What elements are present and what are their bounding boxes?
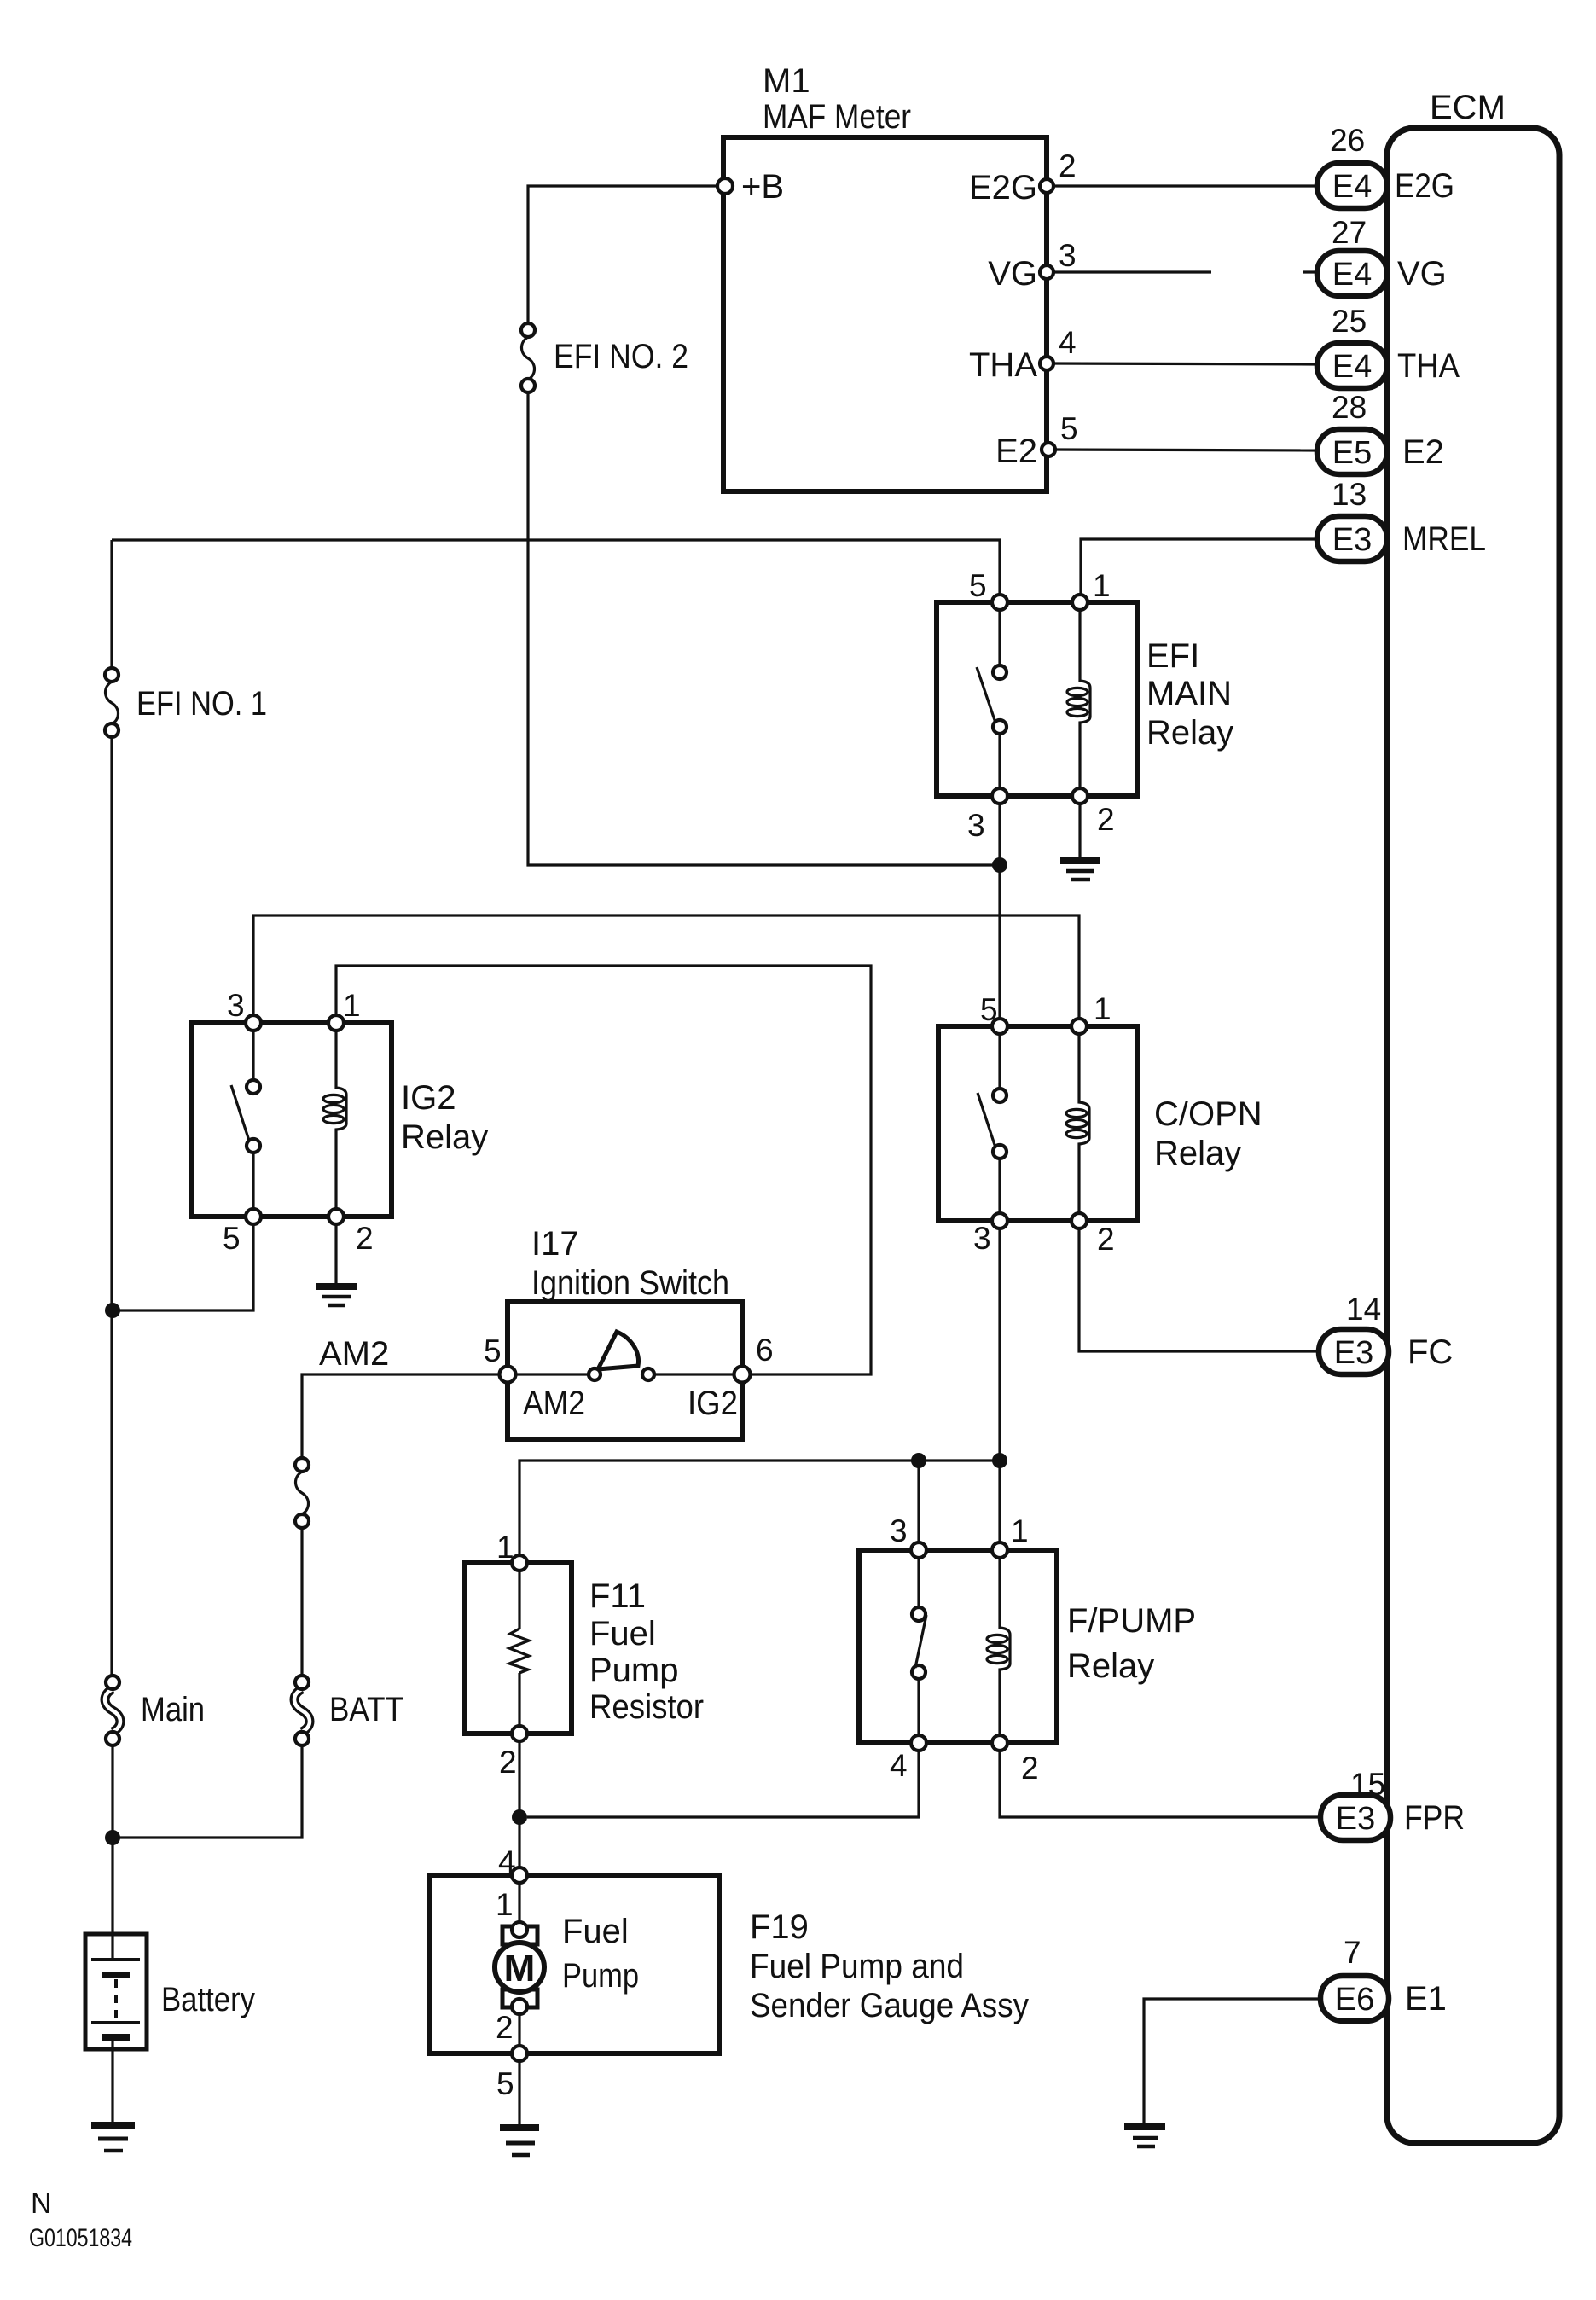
svg-text:Battery: Battery bbox=[161, 1981, 255, 2018]
svg-text:3: 3 bbox=[227, 988, 245, 1023]
wire IG2 pin5 feed from battery line bbox=[113, 1225, 253, 1310]
svg-text:2: 2 bbox=[499, 1745, 517, 1780]
fuse EFI NO. 2 bbox=[521, 323, 688, 392]
wire F11 pin2 down to F19 pin 4 bbox=[518, 1741, 520, 1867]
motor fuel pump bbox=[495, 1867, 544, 2061]
connector E4 pin 25 THA bbox=[1317, 304, 1460, 388]
svg-text:5: 5 bbox=[1060, 411, 1078, 446]
connector E3 pin 14 FC bbox=[1319, 1292, 1453, 1374]
svg-text:2: 2 bbox=[1097, 802, 1115, 837]
svg-text:25: 25 bbox=[1332, 304, 1367, 339]
wire fuse EFI NO.2 to junction below EFI MAIN relay bbox=[528, 392, 993, 865]
relay IG2 bbox=[191, 988, 488, 1256]
svg-text:Ignition Switch: Ignition Switch bbox=[531, 1264, 729, 1302]
svg-text:Main: Main bbox=[141, 1691, 205, 1728]
connector E5 pin 28 E2 bbox=[1317, 390, 1444, 474]
pin E2G (2) of MAF meter bbox=[969, 148, 1077, 206]
connector E6 pin 7 E1 bbox=[1320, 1935, 1447, 2021]
fuse Main bbox=[105, 1676, 205, 1745]
svg-text:Fuel: Fuel bbox=[562, 1913, 629, 1950]
svg-text:EFI NO. 2: EFI NO. 2 bbox=[554, 338, 688, 375]
wire E2G to ECM bbox=[1053, 184, 1317, 187]
svg-text:FC: FC bbox=[1407, 1333, 1453, 1371]
ground below EFI MAIN relay bbox=[1060, 861, 1100, 880]
wire VG (with scan gap) bbox=[1053, 270, 1211, 273]
wire junction to F/PUMP pin 4 bbox=[527, 1751, 919, 1817]
svg-text:C/OPN: C/OPN bbox=[1154, 1095, 1262, 1133]
svg-text:E2: E2 bbox=[1402, 433, 1444, 471]
svg-text:5: 5 bbox=[496, 2066, 514, 2101]
wire BATT fuse to junction bbox=[113, 1745, 302, 1838]
wire EFI MAIN pin2 to ground bbox=[1078, 804, 1081, 859]
svg-text:7: 7 bbox=[1344, 1935, 1361, 1970]
svg-text:Relay: Relay bbox=[401, 1118, 488, 1156]
svg-text:4: 4 bbox=[890, 1748, 908, 1783]
svg-text:2: 2 bbox=[1097, 1222, 1115, 1257]
ECM module box bbox=[1387, 89, 1559, 2143]
node junction FPR sense tap bbox=[512, 1809, 527, 1825]
svg-text:E1: E1 bbox=[1405, 1980, 1447, 2018]
svg-text:27: 27 bbox=[1332, 215, 1367, 250]
svg-text:Sender Gauge Assy: Sender Gauge Assy bbox=[750, 1987, 1029, 2024]
wire C/OPN pin1 from IG2 relay pin 3 bbox=[253, 915, 1079, 1018]
resistor F11 fuel pump resistor bbox=[465, 1530, 704, 1780]
svg-text:M: M bbox=[504, 1948, 536, 1989]
svg-text:26: 26 bbox=[1330, 123, 1365, 158]
svg-text:2: 2 bbox=[496, 2010, 514, 2045]
svg-text:1: 1 bbox=[343, 988, 361, 1023]
ground below IG2 relay bbox=[316, 1286, 357, 1305]
node junction F/PUMP pin1 feed bbox=[992, 1453, 1007, 1468]
pin VG (3) of MAF meter bbox=[988, 238, 1076, 293]
ground below battery bbox=[91, 2125, 135, 2151]
svg-text:BATT: BATT bbox=[329, 1691, 403, 1728]
svg-text:5: 5 bbox=[969, 568, 987, 603]
node junction battery trunk / BATT branch bbox=[105, 1830, 120, 1845]
svg-text:1: 1 bbox=[1093, 568, 1111, 603]
svg-text:5: 5 bbox=[484, 1333, 502, 1368]
svg-text:E4: E4 bbox=[1332, 169, 1372, 205]
node junction F/PUMP pin3 feed bbox=[911, 1453, 926, 1468]
svg-text:F11: F11 bbox=[589, 1577, 646, 1615]
wire C/OPN pin3 down to distribution node bbox=[998, 1229, 1001, 1461]
node junction at EFI MAIN relay output bbox=[992, 857, 1007, 873]
connector E4 pin 26 E2G bbox=[1317, 123, 1454, 208]
relay C/OPN bbox=[938, 991, 1262, 1257]
pin +B of MAF meter bbox=[717, 168, 784, 206]
svg-text:2: 2 bbox=[1059, 148, 1077, 183]
svg-text:VG: VG bbox=[988, 255, 1037, 293]
wire down to F/PUMP pin 3 bbox=[917, 1461, 920, 1542]
svg-text:N: N bbox=[31, 2187, 52, 2220]
wire down to F/PUMP pin 1 bbox=[998, 1461, 1001, 1542]
svg-text:4: 4 bbox=[1059, 325, 1077, 360]
svg-text:6: 6 bbox=[756, 1333, 774, 1368]
svg-text:5: 5 bbox=[223, 1221, 241, 1256]
pin THA (4) of MAF meter bbox=[969, 325, 1077, 384]
wire IG2 pin2 to ground bbox=[334, 1225, 337, 1283]
svg-text:G01051834: G01051834 bbox=[29, 2224, 132, 2252]
svg-text:THA: THA bbox=[969, 346, 1037, 384]
fuse EFI NO. 1 bbox=[105, 668, 267, 737]
svg-text:1: 1 bbox=[1011, 1513, 1029, 1548]
svg-text:3: 3 bbox=[890, 1513, 908, 1548]
connector E3 pin 15 FPR bbox=[1320, 1767, 1465, 1840]
svg-text:THA: THA bbox=[1397, 347, 1460, 385]
svg-text:3: 3 bbox=[973, 1221, 991, 1256]
ground below fuel pump bbox=[500, 2128, 539, 2155]
svg-text:1: 1 bbox=[496, 1887, 514, 1922]
svg-text:E5: E5 bbox=[1332, 435, 1372, 471]
svg-text:IG2: IG2 bbox=[401, 1079, 456, 1117]
svg-text:Relay: Relay bbox=[1146, 714, 1233, 752]
svg-text:EFI: EFI bbox=[1146, 637, 1199, 675]
wire F/PUMP pin2 to FPR connector bbox=[1000, 1751, 1320, 1817]
svg-text:3: 3 bbox=[967, 808, 985, 843]
wire F19 pin5 to ground bbox=[518, 2062, 520, 2124]
fuel pump assembly F19 box bbox=[430, 1844, 1029, 2101]
svg-text:MREL: MREL bbox=[1402, 520, 1486, 558]
node junction battery line / IG2 feed bbox=[105, 1303, 120, 1318]
wire MREL coil-side: EFI MAIN pin 1 to MREL connector bbox=[1081, 539, 1319, 594]
svg-text:E2G: E2G bbox=[969, 169, 1037, 206]
svg-text:Pump: Pump bbox=[589, 1652, 679, 1689]
ignition switch I17 bbox=[484, 1225, 774, 1439]
wire battery to ground bbox=[111, 2049, 113, 2122]
svg-text:E2: E2 bbox=[995, 433, 1037, 470]
svg-text:F19: F19 bbox=[750, 1908, 809, 1946]
ground E1 bbox=[1124, 2127, 1165, 2146]
svg-text:E4: E4 bbox=[1332, 257, 1372, 293]
svg-text:13: 13 bbox=[1332, 477, 1367, 512]
svg-text:Relay: Relay bbox=[1067, 1647, 1154, 1685]
svg-text:ECM: ECM bbox=[1430, 89, 1506, 126]
svg-text:MAIN: MAIN bbox=[1146, 675, 1232, 712]
svg-text:E2G: E2G bbox=[1395, 167, 1454, 205]
relay EFI MAIN bbox=[937, 568, 1233, 843]
wire MREL battery-side: EFI NO.1 top to EFI MAIN pin 5 bbox=[112, 540, 1000, 594]
battery bbox=[85, 1934, 255, 2049]
connector E3 pin 13 MREL bbox=[1317, 477, 1486, 561]
wire EFI NO.1 vertical battery feed bbox=[110, 540, 113, 668]
wire IG2 pin1 from ignition switch IG2 bbox=[336, 966, 871, 1374]
svg-text:E4: E4 bbox=[1332, 349, 1372, 385]
svg-text:2: 2 bbox=[356, 1221, 374, 1256]
wire fuse to BATT fuse bbox=[300, 1528, 303, 1676]
svg-text:Fuel Pump and: Fuel Pump and bbox=[750, 1948, 964, 1985]
wire AM2 from ignition switch to fuse line bbox=[302, 1374, 498, 1458]
svg-text:3: 3 bbox=[1059, 238, 1077, 273]
svg-text:MAF Meter: MAF Meter bbox=[763, 98, 911, 136]
svg-text:AM2: AM2 bbox=[319, 1335, 389, 1373]
svg-text:E3: E3 bbox=[1336, 1801, 1375, 1837]
svg-text:FPR: FPR bbox=[1404, 1799, 1465, 1837]
wire +B feed from EFI NO.2 fuse bbox=[528, 186, 717, 323]
svg-text:F/PUMP: F/PUMP bbox=[1067, 1602, 1196, 1640]
fuse BATT bbox=[294, 1676, 403, 1745]
svg-text:VG: VG bbox=[1397, 255, 1447, 293]
svg-text:IG2: IG2 bbox=[688, 1385, 738, 1422]
wire EFI MAIN pin3 down through junction to C/OPN pin 5 bbox=[998, 804, 1001, 1018]
wire battery trunk below Main fuse bbox=[111, 1745, 113, 1934]
pin E2 (5) of MAF meter bbox=[995, 411, 1078, 470]
wire distribution node: C/OPN pin3 to F11 and F/PUMP bbox=[519, 1461, 1000, 1556]
MAF meter M1 box bbox=[723, 62, 1047, 491]
wire C/OPN pin2 to FC connector bbox=[1079, 1229, 1320, 1351]
svg-text:Resistor: Resistor bbox=[589, 1688, 704, 1726]
svg-text:2: 2 bbox=[1021, 1751, 1039, 1786]
relay F/PUMP bbox=[859, 1513, 1196, 1786]
svg-text:Fuel: Fuel bbox=[589, 1615, 656, 1652]
wire E2 to ECM bbox=[1055, 450, 1317, 450]
svg-text:E3: E3 bbox=[1334, 1335, 1373, 1371]
svg-text:Pump: Pump bbox=[562, 1957, 639, 1995]
svg-text:28: 28 bbox=[1332, 390, 1367, 425]
svg-text:EFI NO. 1: EFI NO. 1 bbox=[136, 685, 267, 723]
svg-text:14: 14 bbox=[1346, 1292, 1381, 1327]
fuse AM2 line (unlabeled) bbox=[295, 1458, 309, 1528]
connector E4 pin 27 VG bbox=[1317, 215, 1447, 296]
svg-text:I17: I17 bbox=[531, 1225, 579, 1263]
svg-text:E6: E6 bbox=[1335, 1982, 1374, 2018]
wire E1 to ground bbox=[1144, 1999, 1320, 2123]
svg-text:E3: E3 bbox=[1332, 522, 1372, 558]
svg-text:Relay: Relay bbox=[1154, 1135, 1241, 1172]
svg-text:AM2: AM2 bbox=[523, 1385, 585, 1422]
svg-text:+B: +B bbox=[741, 168, 784, 206]
svg-text:M1: M1 bbox=[763, 62, 810, 100]
wire THA to ECM bbox=[1053, 363, 1317, 364]
svg-text:1: 1 bbox=[1094, 991, 1111, 1026]
